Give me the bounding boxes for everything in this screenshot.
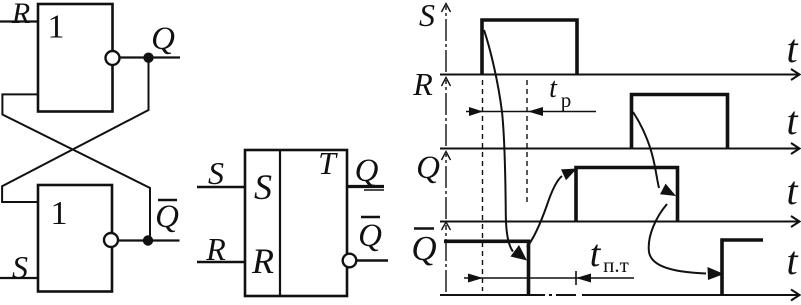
svg-text:Q: Q [155, 199, 179, 235]
svg-text:R: R [205, 231, 226, 267]
svg-text:R: R [11, 0, 30, 30]
inversion bubble DD1 [106, 51, 120, 65]
wire Q output of trigger [347, 185, 384, 188]
wire Q output [120, 56, 181, 58]
dimension t_pt line [464, 277, 634, 279]
svg-text:Q: Q [416, 150, 440, 186]
svg-text:п.т: п.т [603, 253, 629, 277]
wire Q-bar output [118, 239, 180, 241]
axis Q-bar time axis [440, 294, 799, 296]
dimension t_p left arrow [469, 107, 483, 116]
svg-text:t: t [549, 73, 558, 104]
wire S input [0, 277, 38, 279]
guide dashed line at S rise [482, 80, 484, 291]
axis R vertical arrowhead [442, 78, 451, 87]
waveform Q pulse [576, 168, 678, 222]
arrow S rise to Q-bar fall [484, 30, 513, 252]
svg-text:t: t [786, 26, 798, 71]
svg-text:1: 1 [51, 195, 68, 232]
node Q junction dot [143, 53, 153, 63]
axis Q arrowhead [791, 216, 800, 227]
inversion bubble on trigger Q-bar output [343, 254, 357, 268]
axis S time axis [440, 74, 799, 76]
axis Q-bar label overbar [414, 227, 434, 229]
arrow Q-bar fall to Q rise head [561, 169, 577, 181]
axis R time axis [440, 148, 799, 150]
svg-text:t: t [590, 233, 602, 275]
svg-text:R: R [412, 66, 433, 102]
waveform Q-bar initial high and fall [444, 241, 529, 295]
waveform S pulse [482, 20, 577, 75]
dimension t_p line [466, 111, 596, 113]
node Q-bar junction dot [143, 235, 153, 245]
svg-text:Q: Q [151, 21, 175, 57]
svg-text:Q: Q [358, 218, 382, 254]
flip-flop U1 divider [279, 150, 281, 296]
svg-text:S: S [208, 155, 224, 191]
svg-text:T: T [318, 145, 338, 181]
waveform Q-bar final rise [722, 240, 763, 295]
axis S vertical arrowhead [442, 4, 451, 13]
svg-text:t: t [786, 168, 798, 213]
dimension t_pt tick [575, 271, 577, 285]
svg-text:t: t [786, 238, 798, 283]
svg-text:S: S [254, 167, 272, 207]
arrow R rise to Q fall [633, 112, 659, 188]
dimension t_p right arrow [528, 107, 543, 116]
flip-flop U1 (RS trigger box) [245, 150, 347, 296]
arrow R rise to Q fall head [660, 184, 676, 196]
arrow S rise to Q-bar fall head [511, 245, 528, 261]
svg-text:t: t [786, 98, 798, 143]
arrow Q fall to Q-bar rise [649, 204, 706, 274]
svg-text:р: р [561, 88, 572, 112]
axis Q-bar vertical [445, 225, 447, 292]
arrow Q fall to Q-bar rise head [708, 267, 725, 280]
svg-text:Q: Q [411, 229, 436, 268]
svg-text:R: R [251, 241, 274, 281]
svg-text:S: S [12, 249, 28, 285]
gate DD2 (bottom OR-NOT element) [38, 185, 112, 292]
axis S vertical [445, 6, 447, 72]
svg-text:Q: Q [355, 153, 379, 189]
axis Q-bar axis dot [549, 294, 552, 296]
wire R input of trigger [197, 261, 245, 263]
dimension t_pt left arrow [468, 274, 483, 283]
gate DD1 (top OR-NOT element) [38, 4, 113, 112]
wire R input [0, 20, 38, 22]
inversion bubble DD2 [104, 233, 118, 247]
wire Q-bar output of trigger [357, 259, 389, 261]
wire top gate second input (feedback from Q-bar) [2, 94, 150, 240]
guide dashed line at Q-bar fall [526, 80, 528, 206]
axis R arrowhead [791, 143, 800, 154]
axis Q-bar arrowhead [791, 290, 800, 301]
axis Q time axis [440, 221, 799, 223]
axis Q vertical arrowhead [442, 152, 451, 161]
svg-text:S: S [419, 0, 435, 33]
wire artifact under Q output [364, 189, 384, 191]
output Q-bar overbar [361, 216, 380, 218]
wire Q feedback to lower gate [2, 58, 148, 203]
svg-text:1: 1 [48, 9, 65, 46]
node Q-bar overbar [158, 199, 177, 201]
axis Q-bar vertical arrowhead [442, 222, 451, 230]
waveform R pulse [632, 95, 728, 149]
arrow Q-bar fall to Q rise [527, 176, 562, 247]
wire S input of trigger [197, 186, 245, 188]
axis Q vertical [445, 154, 447, 219]
axis R vertical [445, 80, 447, 146]
axis S arrowhead [791, 69, 800, 80]
dimension t_pt right arrow [576, 274, 591, 283]
